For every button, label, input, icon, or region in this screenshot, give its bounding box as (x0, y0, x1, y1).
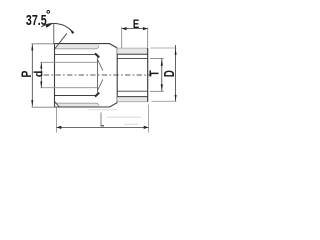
dimension T: dimension line with arrows (161, 59, 163, 92)
right section bore line upper (117, 58, 148, 60)
counterbore bottom vertical (97, 57, 99, 92)
bottom cropped dimension line with arrows (57, 126, 149, 128)
label D (rotated, condensed) (161, 70, 178, 77)
thread minor line lower with runout arrow (55, 95, 96, 97)
drill point lower diagonal (98, 79, 103, 90)
label T (rotated, condensed) (146, 69, 161, 76)
thread root line upper (55, 45, 99, 49)
right section crest line lower (117, 101, 148, 103)
dimension P: extension lines (32, 43, 55, 45)
svg-text:37.5: 37.5 (26, 12, 47, 28)
right section bore line lower (117, 90, 148, 92)
svg-text:d: d (33, 71, 46, 78)
angle dimension: vertical extension line (53, 23, 55, 43)
label 37.5 (26, 12, 47, 28)
flare chamfer line upper (37.5 deg) with extension (55, 33, 67, 49)
dimension D: dimension line with arrows (with overshoot) (175, 45, 177, 101)
dimension P: dimension line with arrows (31, 44, 33, 107)
label E (condensed) (133, 18, 139, 31)
bottom fragment: vertical stub with tick (100, 112, 102, 125)
svg-text:E: E (133, 18, 139, 31)
right section root line upper (117, 53, 148, 55)
right face (147, 48, 149, 102)
bottom cropped dimension: extension lines (56, 108, 58, 133)
bottom fragment: faint row line 1 (88, 109, 117, 111)
bottom fragment: faint row line 2 (107, 116, 141, 118)
thread band lower (female thread, shaded) (55, 103, 99, 106)
centerline (dash-dot axis) (44, 74, 152, 76)
body outline (large section) (55, 44, 118, 107)
dimension D: extension lines (150, 47, 176, 49)
right section crest line upper (thin) (117, 47, 148, 49)
bore line upper (also d extension line) (41, 61, 98, 63)
drill point upper diagonal (98, 59, 103, 70)
svg-text:T: T (146, 69, 161, 76)
arc arrow at vertical line (45, 24, 52, 28)
dimension T: extension lines (150, 57, 164, 59)
thread band upper (female thread, shaded) (55, 44, 99, 49)
svg-text:D: D (161, 70, 178, 77)
angle dimension arc (41, 23, 72, 31)
svg-text:P: P (18, 71, 34, 78)
flare chamfer line lower (55, 102, 60, 107)
bottom fragment: faint row line 3 (124, 123, 139, 125)
label P (rotated, condensed) (18, 71, 34, 78)
dimension d: dimension line with arrows (40, 62, 42, 87)
bore line lower (also d extension line) (41, 87, 98, 89)
thread root line lower (55, 103, 99, 106)
thread minor line upper with runout arrow (55, 54, 96, 56)
right section root line lower (117, 96, 148, 98)
dimension E: dimension line with arrows (122, 28, 148, 30)
label d (rotated, condensed) (33, 71, 46, 78)
arc arrow at 37.5 line (70, 29, 75, 34)
right section thread band lower (shaded) (117, 97, 148, 102)
right section thread band upper (shaded) (117, 48, 148, 54)
dimension E: extension lines (121, 27, 123, 50)
degree symbol (47, 10, 50, 13)
